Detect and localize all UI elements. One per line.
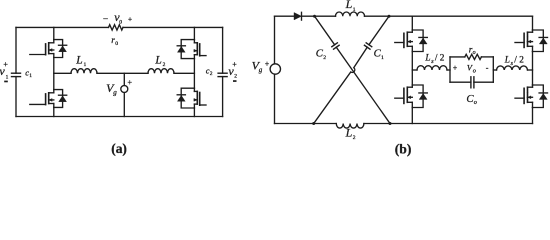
svg-text:L: L <box>154 54 161 66</box>
svg-text:L: L <box>345 0 353 11</box>
svg-text:L: L <box>345 126 353 140</box>
svg-text:s: s <box>431 59 434 65</box>
svg-text:−: − <box>103 15 108 25</box>
svg-text:+: + <box>128 78 133 87</box>
svg-text:o: o <box>473 67 476 74</box>
svg-text:(a): (a) <box>111 141 127 156</box>
svg-text:L: L <box>75 54 82 66</box>
svg-text:s: s <box>511 61 514 67</box>
svg-text:L: L <box>504 56 510 66</box>
svg-text:g: g <box>113 89 117 97</box>
svg-text:+: + <box>128 16 132 24</box>
svg-text:/ 2: / 2 <box>435 54 445 64</box>
svg-text:2: 2 <box>234 74 237 80</box>
svg-text:-: - <box>486 63 489 72</box>
svg-text:o: o <box>473 50 476 56</box>
svg-text:g: g <box>259 66 263 74</box>
svg-text:2: 2 <box>210 71 213 77</box>
svg-text:0: 0 <box>119 20 122 26</box>
svg-text:0: 0 <box>115 41 118 47</box>
svg-text:+: + <box>453 64 458 73</box>
svg-text:1: 1 <box>84 62 87 68</box>
svg-text:o: o <box>474 99 477 106</box>
svg-text:1: 1 <box>29 73 32 79</box>
svg-text:2: 2 <box>163 62 166 68</box>
svg-text:L: L <box>424 54 430 64</box>
svg-text:/ 2: / 2 <box>514 56 524 66</box>
svg-text:1: 1 <box>381 55 384 61</box>
svg-text:v: v <box>0 64 5 78</box>
svg-text:1: 1 <box>6 74 9 80</box>
svg-text:+: + <box>265 59 270 68</box>
svg-text:1: 1 <box>353 7 356 13</box>
svg-text:(b): (b) <box>395 141 412 157</box>
svg-text:2: 2 <box>323 55 326 61</box>
svg-text:2: 2 <box>353 135 356 141</box>
